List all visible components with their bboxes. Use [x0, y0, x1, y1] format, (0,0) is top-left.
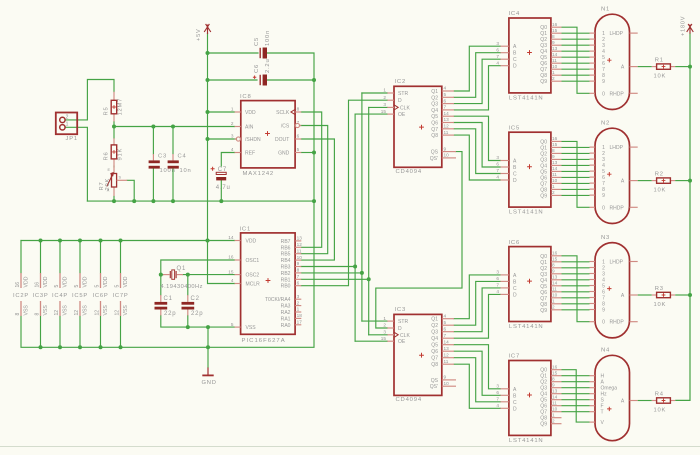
wire +5V to C5 left: [208, 52, 259, 54]
svg-text:11: 11: [552, 400, 557, 405]
svg-text:DOUT: DOUT: [275, 137, 289, 143]
svg-text:7: 7: [496, 283, 499, 288]
svg-text:4: 4: [496, 60, 499, 65]
svg-text:10: 10: [552, 406, 558, 411]
svg-text:R5: R5: [104, 106, 110, 115]
svg-text:9: 9: [602, 193, 605, 199]
svg-text:VDD: VDD: [43, 276, 49, 287]
wire IC2 Q1 to IC4 A: [454, 46, 500, 91]
svg-text:MCLR: MCLR: [246, 282, 261, 288]
svg-text:16: 16: [15, 282, 21, 288]
junction +5V VDD rail: [206, 239, 210, 243]
svg-text:10n: 10n: [180, 168, 192, 174]
svg-text:7: 7: [297, 274, 300, 279]
wire N1 cathode bus: [562, 27, 590, 93]
svg-text:100n: 100n: [160, 168, 176, 174]
ground symbol GND: [207, 368, 209, 376]
junction RB3 OE: [353, 265, 357, 269]
wire IC3P VSS drop: [40, 316, 42, 347]
svg-text:C2: C2: [191, 296, 200, 302]
junction RB2 STR: [360, 271, 364, 275]
svg-text:LHDP: LHDP: [610, 260, 624, 266]
wire IC2 CLK branch: [369, 106, 388, 108]
svg-text:QS: QS: [431, 150, 439, 156]
power pins IC3P: [32, 273, 49, 316]
svg-text:IC3: IC3: [395, 307, 407, 313]
power pins IC2P: [13, 273, 30, 316]
svg-text:15: 15: [381, 109, 387, 114]
wire RB3 row: [301, 266, 355, 268]
svg-text:LST4141N: LST4141N: [509, 324, 544, 330]
svg-text:IC8: IC8: [240, 94, 252, 100]
wire C6 right to GND riser: [267, 79, 314, 81]
nixie tube N2: [590, 121, 638, 224]
svg-text:4.7u: 4.7u: [216, 185, 231, 191]
svg-text:VSS: VSS: [24, 305, 30, 316]
wire IC3 Q2 to IC6 B: [454, 281, 500, 325]
svg-text:4: 4: [231, 278, 234, 283]
svg-text:7: 7: [496, 54, 499, 59]
wire N2 cathode bus: [562, 141, 590, 207]
capacitor C2: [187, 295, 189, 302]
wire +5V to C6 left: [208, 79, 258, 81]
svg-text:5: 5: [74, 285, 80, 288]
svg-text:13: 13: [444, 117, 450, 122]
IC IC1 PIC16F627A: [228, 227, 302, 344]
svg-text:IC5: IC5: [509, 125, 521, 131]
svg-text:GND: GND: [278, 151, 290, 157]
svg-text:VDD: VDD: [63, 276, 69, 287]
svg-text:1: 1: [231, 107, 234, 112]
wire C3 bottom to ground rail: [152, 169, 154, 202]
svg-text:Q9: Q9: [540, 422, 547, 428]
svg-text:C4: C4: [178, 153, 187, 159]
svg-text:RA3: RA3: [281, 304, 291, 310]
svg-text:IC6: IC6: [509, 240, 521, 246]
svg-text:8: 8: [552, 34, 555, 39]
wire IC8 REF to C7: [221, 153, 234, 167]
svg-text:2: 2: [231, 121, 234, 126]
svg-text:VDD: VDD: [83, 276, 89, 287]
svg-text:5: 5: [115, 285, 121, 288]
svg-text:5: 5: [95, 285, 101, 288]
svg-text:15: 15: [228, 269, 234, 274]
capacitor C7 polarized: [216, 172, 226, 174]
wire R7 bottom to ground rail: [113, 196, 115, 201]
resistor R4 10K: [638, 392, 676, 414]
svg-text:3: 3: [496, 270, 499, 275]
svg-text:2: 2: [66, 114, 69, 120]
svg-text:IC2: IC2: [395, 79, 407, 85]
svg-text:10: 10: [444, 153, 450, 158]
svg-text:3: 3: [496, 155, 499, 160]
svg-text:13: 13: [552, 275, 558, 280]
svg-text:QS': QS': [430, 384, 438, 390]
wire net /CS RB5: [300, 126, 328, 254]
svg-text:REF: REF: [245, 151, 255, 157]
wire IC3P VDD drop: [40, 241, 42, 274]
svg-text:R3: R3: [655, 286, 664, 292]
svg-text:D: D: [513, 64, 517, 70]
svg-text:5: 5: [54, 285, 60, 288]
svg-text:12: 12: [115, 310, 121, 316]
junction VDD rail IC7P: [119, 239, 123, 243]
svg-text:14: 14: [552, 281, 558, 286]
svg-text:1: 1: [66, 122, 69, 128]
power pins IC6P: [92, 273, 109, 316]
capacitor C1: [160, 295, 162, 302]
nixie tube N4 symbol tube: [590, 348, 638, 441]
svg-text:IC4P: IC4P: [52, 293, 68, 299]
svg-text:8: 8: [552, 148, 555, 153]
svg-text:D: D: [513, 178, 517, 184]
svg-text:2.2u: 2.2u: [265, 59, 271, 73]
svg-text:7: 7: [496, 397, 499, 402]
wire net RB0 to IC2 D: [301, 100, 387, 286]
svg-text:C7: C7: [218, 167, 227, 173]
svg-text:A: A: [107, 189, 110, 193]
wire R6 bottom to R7 top: [113, 166, 115, 167]
wire R3 to +180V rail: [675, 294, 690, 296]
svg-text:1: 1: [552, 70, 555, 75]
junction analog ground riser: [312, 199, 316, 203]
svg-text:Q7: Q7: [431, 127, 438, 133]
svg-text:9: 9: [602, 308, 605, 314]
svg-text:10K: 10K: [654, 74, 667, 80]
svg-text:3: 3: [383, 102, 386, 107]
wire IC7P VSS drop: [120, 316, 122, 347]
svg-text:RHDP: RHDP: [610, 320, 625, 326]
svg-text:2: 2: [552, 190, 555, 195]
svg-text:91K: 91K: [117, 148, 123, 161]
wire IC2P VDD drop: [20, 241, 22, 274]
wire IC2 Q8 to IC5 D: [454, 135, 500, 180]
junction RB1 CLK: [367, 277, 371, 281]
svg-text:MAX1242: MAX1242: [243, 171, 274, 177]
wire C7 bottom to ground rail: [220, 181, 222, 202]
svg-text:6: 6: [496, 162, 499, 167]
IC IC7 LST4141N nixie driver: [496, 354, 561, 444]
wire JP1 pin1 to ground rail: [65, 127, 87, 201]
svg-text:N2: N2: [601, 121, 610, 127]
svg-text:N3: N3: [601, 235, 610, 241]
wire AIN row: [114, 126, 235, 128]
svg-text:VDD: VDD: [123, 276, 129, 287]
svg-text:D: D: [398, 98, 402, 104]
wire JP1 pin2 to R5 top: [65, 80, 114, 120]
svg-text:RA1: RA1: [281, 316, 291, 322]
svg-text:12: 12: [297, 242, 303, 247]
svg-text:RB0: RB0: [281, 284, 291, 290]
wire IC3 Q7 to IC7 C: [454, 358, 500, 402]
svg-text:IC6P: IC6P: [92, 293, 108, 299]
junction GND rail symbol: [206, 345, 210, 349]
svg-text:R2: R2: [655, 172, 664, 178]
junction VDD rail IC6P: [99, 239, 103, 243]
wire net DOUT RB4: [301, 139, 334, 260]
wire IC6P VDD drop: [100, 241, 102, 274]
svg-text:13: 13: [552, 388, 558, 393]
capacitor C3: [152, 154, 154, 160]
junction C4 ground: [171, 199, 175, 203]
svg-text:15: 15: [552, 257, 558, 262]
resistor R5: [113, 92, 115, 101]
svg-text:Q9: Q9: [540, 308, 547, 314]
junction GND rail IC4P: [58, 345, 62, 349]
wire crystal right to OSC2: [183, 274, 235, 276]
junction +5V VDD: [206, 110, 210, 114]
wire IC2 OE branch: [355, 113, 387, 115]
svg-text:OSC2: OSC2: [246, 273, 260, 279]
svg-text:12: 12: [74, 310, 80, 316]
svg-text:10K: 10K: [654, 408, 667, 414]
power pins IC4P: [52, 273, 69, 316]
svg-text:5: 5: [444, 92, 447, 97]
svg-text:Q1: Q1: [431, 89, 438, 95]
wire IC3 OE branch: [355, 340, 387, 342]
wire AIN node to R6 top: [113, 127, 115, 139]
svg-text:13: 13: [552, 160, 558, 165]
svg-text:Q4: Q4: [431, 108, 438, 114]
IC IC5 LST4141N nixie driver: [496, 125, 561, 215]
+5V supply symbol: [204, 24, 211, 34]
junction R7 ground: [112, 199, 116, 203]
power pins IC7P: [112, 273, 129, 316]
svg-text:3: 3: [496, 384, 499, 389]
svg-text:9: 9: [552, 269, 555, 274]
junction VDD rail IC4P: [58, 239, 62, 243]
junction VSS row: [206, 325, 210, 329]
svg-text:5: 5: [297, 147, 300, 152]
svg-text:IC2P: IC2P: [13, 293, 29, 299]
svg-text:N1: N1: [601, 7, 610, 13]
IC IC3 CD4094 shift register: [381, 307, 456, 403]
svg-text:10: 10: [552, 293, 558, 298]
svg-text:VSS: VSS: [103, 305, 109, 316]
svg-text:12M7: 12M7: [117, 98, 123, 116]
svg-text:LST4141N: LST4141N: [509, 95, 544, 101]
svg-text:9: 9: [552, 154, 555, 159]
junction IC8 GND riser: [312, 151, 316, 155]
wire IC7P VDD drop: [120, 241, 122, 274]
svg-text:14: 14: [444, 339, 450, 344]
svg-text:5: 5: [444, 320, 447, 325]
svg-text:D: D: [513, 292, 517, 298]
svg-text:Q6: Q6: [431, 121, 438, 127]
+180V supply symbol: [687, 24, 694, 34]
svg-text:5: 5: [231, 322, 234, 327]
svg-text:D: D: [398, 326, 402, 332]
wire net +5V vertical and MCLR branch: [208, 34, 235, 284]
wire +5V to IC8 /SHDN: [208, 138, 237, 140]
svg-text:4: 4: [444, 313, 447, 318]
wire GND rail and C5 right riser: [21, 53, 314, 347]
svg-text:CLK: CLK: [400, 105, 410, 111]
wire IC5P VDD drop: [79, 241, 81, 274]
svg-text:10: 10: [552, 64, 558, 69]
svg-text:C: C: [513, 286, 517, 292]
svg-text:Q8: Q8: [431, 362, 438, 368]
svg-text:3: 3: [496, 41, 499, 46]
svg-text:4: 4: [496, 175, 499, 180]
svg-text:CD4094: CD4094: [396, 169, 422, 175]
wire CLK vertical: [368, 107, 370, 334]
wire +5V to IC8 VDD: [208, 111, 235, 113]
wire C2 top drop: [187, 275, 189, 295]
svg-text:Q8: Q8: [431, 133, 438, 139]
svg-text:RHDP: RHDP: [610, 91, 625, 97]
svg-text:1: 1: [297, 307, 300, 312]
junction +5V C6: [206, 78, 210, 82]
svg-text:100n: 100n: [265, 30, 271, 46]
svg-text:12: 12: [54, 310, 60, 316]
svg-text:1: 1: [552, 299, 555, 304]
svg-text:9: 9: [297, 261, 300, 266]
wire net SCLK RB6: [301, 112, 321, 247]
svg-text:LST4141N: LST4141N: [509, 438, 544, 444]
svg-text:OE: OE: [398, 112, 406, 118]
junction +5V C5: [206, 51, 210, 55]
svg-text:RB4: RB4: [281, 258, 291, 264]
svg-text:15: 15: [552, 28, 558, 33]
svg-text:22p: 22p: [164, 311, 176, 317]
svg-text:15: 15: [381, 336, 387, 341]
svg-text:1: 1: [552, 184, 555, 189]
wire C4 bottom to ground rail: [172, 169, 174, 202]
svg-text:11: 11: [552, 287, 557, 292]
svg-text:3: 3: [231, 134, 234, 139]
resistor R3 10K: [638, 286, 676, 308]
svg-text:1: 1: [383, 316, 386, 321]
wire IC2 STR branch: [362, 92, 387, 94]
wire IC3 CLK branch: [369, 334, 388, 336]
wire VDD rail: [21, 240, 235, 242]
wire IC2 Q4 to IC4 D: [454, 66, 500, 110]
wire IC3 Q4 to IC6 D: [454, 294, 500, 338]
svg-text:/CS: /CS: [281, 124, 290, 130]
svg-text:N4: N4: [601, 348, 610, 354]
svg-text:CD4094: CD4094: [396, 397, 422, 403]
svg-text:8: 8: [35, 313, 41, 316]
junction C7 ground: [219, 199, 223, 203]
svg-text:T0CKI/RA4: T0CKI/RA4: [265, 297, 291, 303]
svg-text:10: 10: [552, 178, 558, 183]
svg-text:VSS: VSS: [123, 305, 129, 316]
svg-text:C: C: [513, 172, 517, 178]
svg-text:Q1: Q1: [177, 266, 187, 272]
svg-text:LHDP: LHDP: [610, 145, 624, 151]
svg-text:4.19430400Hz: 4.19430400Hz: [161, 284, 203, 290]
svg-text:0: 0: [602, 205, 605, 211]
svg-text:RA0: RA0: [281, 323, 291, 329]
wire IC5P VSS drop: [79, 316, 81, 347]
junction R7 wiper ground: [132, 199, 136, 203]
wire IC2 Q3 to IC4 C: [454, 59, 500, 103]
svg-text:QS: QS: [431, 378, 439, 384]
svg-text:16: 16: [228, 255, 234, 260]
wire crystal left joint: [161, 274, 163, 276]
svg-text:VDD: VDD: [103, 276, 109, 287]
svg-text:9: 9: [602, 79, 605, 85]
svg-text:C: C: [513, 400, 517, 406]
svg-text:2: 2: [552, 76, 555, 81]
svg-text:STR: STR: [398, 91, 408, 97]
svg-text:10K: 10K: [654, 188, 667, 194]
svg-text:VDD: VDD: [24, 276, 30, 287]
svg-text:16: 16: [35, 282, 41, 288]
svg-text:D: D: [513, 406, 517, 412]
svg-text:14: 14: [552, 166, 558, 171]
svg-text:4: 4: [496, 289, 499, 294]
wire IC2 Q2 to IC4 B: [454, 53, 500, 98]
svg-text:RA2: RA2: [281, 310, 291, 316]
svg-text:3: 3: [297, 294, 300, 299]
svg-text:RB3: RB3: [281, 265, 291, 271]
wire net IC2 QS to IC3 D: [376, 152, 462, 328]
IC IC2 CD4094 shift register: [381, 79, 456, 175]
wire IC4P VDD drop: [59, 241, 61, 274]
wire VSS row: [161, 316, 235, 328]
wire N3 cathode bus: [562, 256, 590, 322]
svg-text:VSS: VSS: [246, 325, 257, 331]
junction VDD rail IC5P: [78, 239, 82, 243]
svg-text:15: 15: [552, 142, 558, 147]
wire IC3 Q5 to IC7 A: [454, 345, 500, 389]
svg-text:7: 7: [444, 333, 447, 338]
svg-text:6: 6: [496, 47, 499, 52]
svg-text:Q5: Q5: [431, 114, 438, 120]
svg-text:13: 13: [444, 346, 450, 351]
junction OSC1 crystal C1: [159, 273, 163, 277]
svg-text:1: 1: [552, 412, 555, 417]
wire IC3 Q3 to IC6 C: [454, 288, 500, 332]
svg-text:Q7: Q7: [431, 356, 438, 362]
IC IC8 MAX1242 ADC: [231, 94, 301, 177]
svg-text:IC5P: IC5P: [72, 293, 88, 299]
svg-text:RB2: RB2: [281, 271, 291, 277]
trimmer R7: [113, 167, 115, 174]
wire analog ground rail: [87, 200, 314, 202]
svg-text:12: 12: [444, 124, 450, 129]
svg-text:22p: 22p: [191, 311, 203, 317]
capacitor C4: [172, 154, 174, 160]
IC IC6 LST4141N nixie driver: [496, 240, 561, 330]
wire IC8 GND to riser: [301, 152, 314, 154]
svg-text:11: 11: [552, 58, 557, 63]
power pins IC5P: [72, 273, 89, 316]
wire RB1 row: [301, 278, 368, 280]
frame bottom edge: [0, 446, 700, 448]
svg-text:6: 6: [297, 134, 300, 139]
svg-text:R1: R1: [655, 58, 664, 64]
svg-text:0: 0: [602, 320, 605, 326]
junction GND rail IC3P: [39, 345, 43, 349]
svg-text:VSS: VSS: [83, 305, 89, 316]
svg-text:AIN: AIN: [245, 125, 254, 131]
svg-text:C5: C5: [254, 37, 260, 46]
svg-text:16: 16: [552, 251, 558, 256]
wire STR vertical: [361, 93, 363, 321]
connector JP1: [56, 113, 77, 135]
junction C6 ground riser: [312, 78, 316, 82]
svg-text:Q9: Q9: [540, 79, 547, 85]
svg-text:RHDP: RHDP: [610, 205, 625, 211]
svg-text:Q3: Q3: [431, 102, 438, 108]
junction GND rail IC5P: [78, 345, 82, 349]
svg-text:LST4141N: LST4141N: [509, 210, 544, 216]
wire IC3 Q1 to IC6 A: [454, 275, 500, 319]
junction C2 VSS: [186, 325, 190, 329]
